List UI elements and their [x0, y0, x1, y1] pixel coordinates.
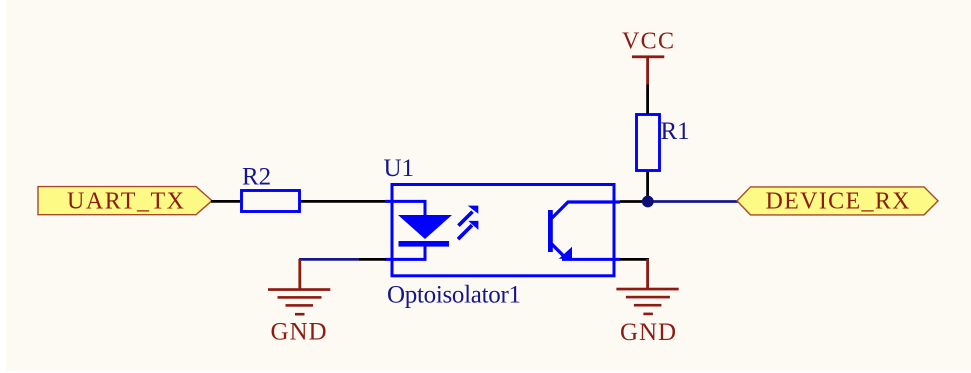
- designator R1: [661, 118, 690, 145]
- LED cathode bar: [399, 241, 450, 247]
- optocoupler U1 box: [392, 185, 614, 276]
- ground GND right: [616, 259, 678, 315]
- label GND left: [271, 319, 327, 346]
- wire VCC stub to R1 (black): [646, 85, 649, 115]
- svg-text:U1: U1: [384, 155, 415, 182]
- wire (black segment) to U1 pin: [359, 258, 386, 261]
- wire junction to DEVICE_RX: [648, 200, 738, 203]
- phototransistor emitter with arrow: [552, 244, 621, 260]
- port DEVICE_RX: [737, 187, 938, 215]
- ground GND left: [268, 259, 330, 316]
- junction node: [642, 196, 654, 208]
- power VCC: [622, 29, 674, 85]
- svg-text:Optoisolator1: Optoisolator1: [387, 281, 521, 308]
- LED triangle: [398, 215, 452, 239]
- svg-text:R1: R1: [661, 118, 690, 145]
- svg-text:VCC: VCC: [622, 29, 674, 55]
- wire R1 to junction: [646, 170, 649, 202]
- LED cathode lead and pin: [385, 246, 425, 259]
- LED anode pin and lead: [385, 201, 425, 216]
- resistor R2: [242, 191, 300, 212]
- svg-text:GND: GND: [271, 319, 327, 346]
- label GND right: [620, 319, 676, 346]
- light emission arrow upper: [458, 206, 478, 226]
- wire UART_TX to R2: [211, 200, 240, 203]
- wire R2 to U1: [301, 200, 386, 203]
- designator U1: [384, 155, 415, 182]
- phototransistor base bar: [548, 210, 553, 252]
- phototransistor collector: [552, 202, 621, 219]
- light emission arrow lower: [458, 221, 478, 239]
- resistor R1: [637, 115, 660, 171]
- wire U1 emitter pin to right GND corner: [620, 258, 649, 261]
- svg-text:R2: R2: [242, 163, 271, 190]
- label Optoisolator1: [387, 281, 521, 308]
- port UART_TX: [38, 187, 212, 215]
- svg-text:GND: GND: [620, 319, 676, 346]
- wire GND riser to LED cathode (navy segment): [299, 258, 359, 261]
- designator R2: [242, 163, 271, 190]
- svg-text:DEVICE_RX: DEVICE_RX: [766, 188, 910, 214]
- wire U1 collector pin to junction: [620, 200, 648, 203]
